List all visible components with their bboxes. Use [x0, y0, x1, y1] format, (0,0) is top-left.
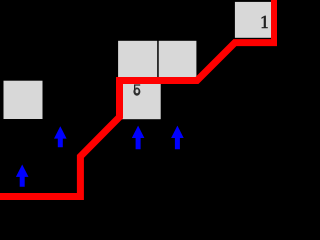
cell square labelled 1 (row 1, top right) — [235, 2, 274, 38]
label 5 top bar and stem — [134, 84, 140, 89]
blue up arrow 1 (bottom left) — [16, 165, 29, 187]
cell square left (row 3, col 0) — [4, 81, 43, 119]
red lattice path — [0, 0, 275, 197]
blue up arrow 2 — [54, 126, 67, 147]
cell square pair-right (row 2) — [159, 41, 197, 81]
label 5 bowl notch — [133, 87, 135, 89]
cell square labelled 5 (row 3) — [120, 81, 161, 119]
cell square pair-left (row 2) — [118, 41, 157, 81]
blue up arrow 3 — [132, 126, 145, 150]
label 5 bowl — [133, 88, 140, 96]
label 1 — [262, 16, 268, 29]
blue up arrow 4 — [171, 126, 184, 150]
